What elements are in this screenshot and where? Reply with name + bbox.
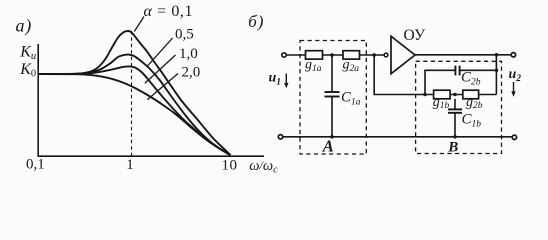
svg-text:u1: u1	[269, 71, 282, 88]
svg-text:g2b: g2b	[466, 95, 483, 111]
svg-text:2,0: 2,0	[182, 64, 201, 80]
svg-text:1,0: 1,0	[179, 46, 198, 62]
svg-text:б): б)	[248, 12, 264, 31]
svg-text:K0: K0	[19, 61, 36, 80]
svg-text:g2a: g2a	[343, 58, 360, 74]
svg-text:1: 1	[126, 157, 134, 173]
svg-text:Ku: Ku	[19, 44, 36, 63]
svg-text:0,1: 0,1	[26, 157, 45, 173]
svg-text:ω/ωс: ω/ωс	[249, 158, 278, 176]
svg-text:C1b: C1b	[462, 112, 482, 130]
svg-text:C2b: C2b	[461, 70, 481, 88]
svg-text:В: В	[447, 140, 458, 156]
svg-text:α = 0,1: α = 0,1	[144, 3, 194, 20]
svg-text:А: А	[322, 136, 334, 155]
svg-text:10: 10	[222, 157, 238, 173]
svg-text:0,5: 0,5	[175, 26, 194, 42]
svg-text:g1a: g1a	[305, 58, 322, 74]
svg-text:ОУ: ОУ	[404, 27, 426, 44]
svg-text:u2: u2	[509, 67, 522, 84]
svg-text:C1a: C1a	[341, 90, 361, 108]
svg-text:а): а)	[16, 16, 33, 37]
svg-text:g1b: g1b	[433, 95, 450, 111]
